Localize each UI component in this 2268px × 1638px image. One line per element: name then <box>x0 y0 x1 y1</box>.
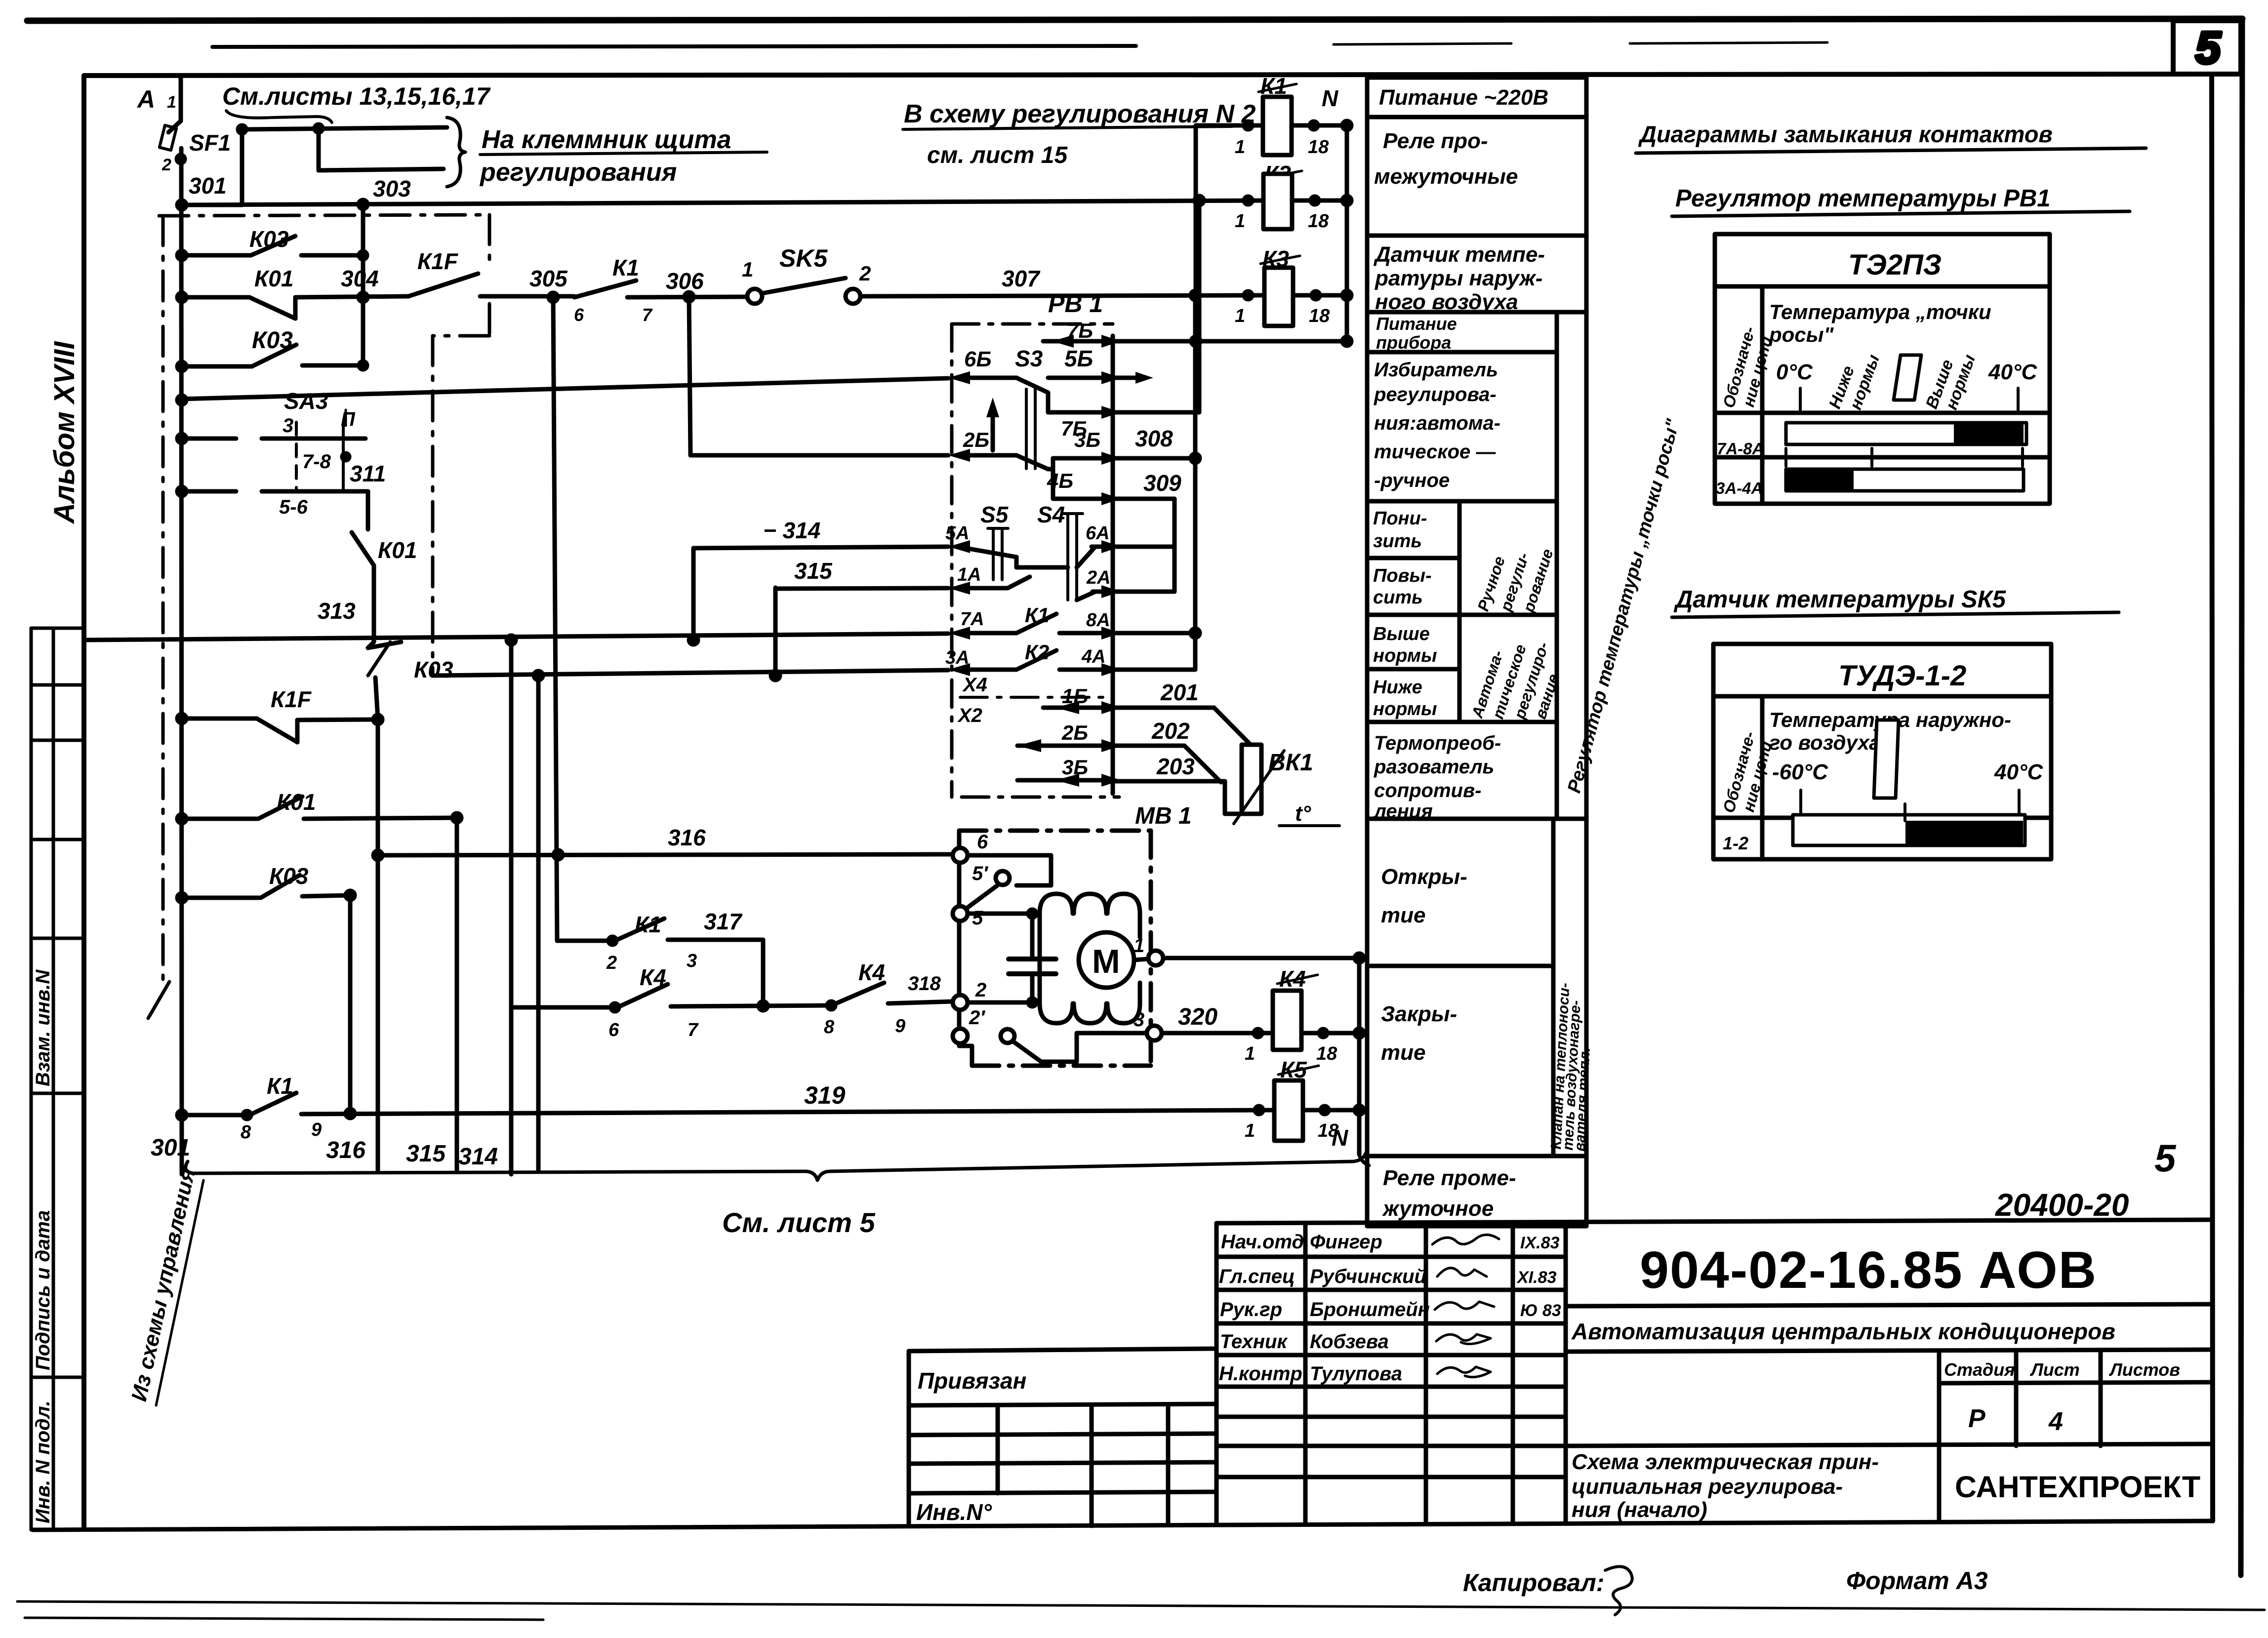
svg-text:202: 202 <box>1151 718 1190 744</box>
svg-text:18: 18 <box>1316 1043 1337 1064</box>
svg-text:18: 18 <box>1308 137 1329 158</box>
8A output joins loop <box>1113 631 1195 636</box>
svg-text:1: 1 <box>742 258 753 281</box>
svg-text:К4: К4 <box>640 964 666 990</box>
svg-text:зить: зить <box>1373 531 1422 552</box>
svg-text:Тулупова: Тулупова <box>1310 1363 1402 1385</box>
svg-text:308: 308 <box>1135 426 1173 451</box>
svg-text:Автоматизация центральных конд: Автоматизация центральных кондиционеров <box>1571 1318 2115 1344</box>
svg-text:-ручное: -ручное <box>1374 470 1450 491</box>
svg-text:2А: 2А <box>1086 567 1111 588</box>
svg-text:7Б: 7Б <box>1067 319 1093 342</box>
svg-text:8: 8 <box>241 1122 251 1143</box>
svg-text:18: 18 <box>1309 306 1330 326</box>
svg-text:315: 315 <box>406 1141 446 1167</box>
svg-text:301: 301 <box>151 1135 190 1161</box>
privyazan box <box>909 1349 1216 1526</box>
svg-text:2′: 2′ <box>969 1007 986 1029</box>
svg-text:1: 1 <box>1235 211 1245 232</box>
svg-text:жуточное: жуточное <box>1382 1197 1494 1221</box>
signature table <box>1303 1223 1308 1523</box>
leader diagonal <box>148 982 169 1018</box>
svg-text:3: 3 <box>283 415 293 437</box>
output 7B to relay K1 <box>1113 339 1347 344</box>
svg-text:К03: К03 <box>414 657 453 682</box>
outer box <box>1216 1220 2212 1223</box>
capacitor <box>1030 914 1035 959</box>
row 1B <box>1043 706 1113 710</box>
svg-text:Листов: Листов <box>2108 1359 2180 1380</box>
svg-text:203: 203 <box>1156 754 1195 779</box>
svg-text:Кобзева: Кобзева <box>1310 1331 1389 1353</box>
svg-text:9: 9 <box>311 1119 322 1140</box>
svg-text:ратуры наруж-: ратуры наруж- <box>1375 266 1542 290</box>
svg-text:Гл.спец: Гл.спец <box>1219 1266 1295 1287</box>
svg-text:Формат А3: Формат А3 <box>1846 1567 1988 1595</box>
svg-text:3Б: 3Б <box>1074 428 1100 451</box>
svg-text:307: 307 <box>1002 266 1041 291</box>
svg-text:нормы: нормы <box>1373 699 1437 719</box>
svg-text:N: N <box>1332 1125 1348 1151</box>
svg-text:40°С: 40°С <box>1994 760 2044 784</box>
svg-text:тическое —: тическое — <box>1374 441 1496 463</box>
svg-text:ВК1: ВК1 <box>1268 750 1313 776</box>
из схемы управления <box>127 1166 200 1403</box>
svg-text:311: 311 <box>350 461 386 486</box>
loop 308 bottom to 4A input <box>1113 668 1195 672</box>
svg-text:Рубчинский: Рубчинский <box>1310 1266 1426 1287</box>
contact K4 row <box>511 1005 615 1010</box>
svg-text:8: 8 <box>824 1017 835 1038</box>
svg-text:Взам. инв.N: Взам. инв.N <box>32 969 54 1086</box>
svg-text:тие: тие <box>1381 1040 1425 1065</box>
svg-text:0°С: 0°С <box>1776 360 1813 384</box>
terminal 1 and wire to right bus <box>1134 959 1154 960</box>
svg-text:Стадия: Стадия <box>1944 1359 2015 1380</box>
svg-text:Реле про-: Реле про- <box>1383 129 1488 153</box>
wire 301 to brace <box>182 203 242 207</box>
svg-text:Ю 83: Ю 83 <box>1520 1301 1561 1320</box>
svg-text:6: 6 <box>977 831 988 853</box>
svg-text:Закры-: Закры- <box>1381 1002 1457 1026</box>
wire 315 vertical <box>455 818 459 1171</box>
page right border <box>2241 19 2242 1575</box>
svg-text:Фингер: Фингер <box>1310 1231 1382 1253</box>
svg-text:ления: ления <box>1373 800 1433 822</box>
inner frame top <box>84 74 2212 76</box>
rotated sub-labels <box>1468 547 1562 721</box>
table TE2P3 <box>1715 234 2050 504</box>
table TUDE-1-2 <box>1713 644 2051 859</box>
svg-text:S4: S4 <box>1037 502 1065 527</box>
svg-text:1: 1 <box>1245 1043 1255 1064</box>
svg-text:2: 2 <box>606 953 617 973</box>
terminal 5 <box>953 906 968 921</box>
svg-text:5Б: 5Б <box>1064 346 1093 371</box>
svg-text:20400-20: 20400-20 <box>1995 1187 2129 1223</box>
svg-text:9: 9 <box>895 1016 905 1037</box>
svg-text:Датчик температуры SК5: Датчик температуры SК5 <box>1673 586 2006 613</box>
right part rows <box>1566 1304 2212 1306</box>
svg-text:7А-8А: 7А-8А <box>1717 439 1764 458</box>
svg-text:2Б: 2Б <box>1061 721 1088 744</box>
svg-text:N: N <box>1322 85 1338 111</box>
row 3B <box>1048 467 1053 472</box>
svg-text:Температура „точки: Температура „точки <box>1769 300 1991 323</box>
svg-text:6Б: 6Б <box>964 347 992 371</box>
row 2B input <box>948 449 970 462</box>
svg-text:3: 3 <box>1134 1009 1144 1031</box>
svg-text:315: 315 <box>794 558 833 584</box>
dash-dot enclosure <box>952 322 1113 326</box>
svg-text:регулирования: регулирования <box>479 158 677 187</box>
wire 6B rail <box>182 378 948 399</box>
svg-text:нормы: нормы <box>1373 645 1437 666</box>
svg-text:305: 305 <box>529 266 568 291</box>
svg-text:К1: К1 <box>635 912 661 937</box>
svg-text:7: 7 <box>688 1020 699 1040</box>
svg-text:Привязан: Привязан <box>918 1368 1026 1394</box>
svg-text:SF1: SF1 <box>189 130 231 156</box>
svg-text:Избиратель: Избиратель <box>1374 359 1498 381</box>
svg-text:Диаграммы замыкания контакто: Диаграммы замыкания контактов <box>1638 121 2053 147</box>
row 7A K1 8A <box>948 627 970 639</box>
breaker SF1 <box>179 78 183 121</box>
svg-text:S3: S3 <box>1015 346 1043 371</box>
svg-text:К01: К01 <box>254 266 293 291</box>
row 7B top <box>1043 339 1113 344</box>
svg-text:t°: t° <box>1295 801 1311 826</box>
svg-text:тие: тие <box>1381 903 1425 927</box>
svg-text:Х2: Х2 <box>957 705 982 726</box>
svg-text:Датчик темпе-: Датчик темпе- <box>1373 242 1545 267</box>
svg-text:Бронштейн: Бронштейн <box>1310 1299 1430 1320</box>
svg-text:316: 316 <box>668 825 706 850</box>
svg-text:Нач.отд.: Нач.отд. <box>1221 1231 1309 1253</box>
stage sheet <box>1944 1359 2180 1436</box>
svg-text:ния:автома-: ния:автома- <box>1374 412 1500 434</box>
svg-text:САНТЕХПРОЕКТ: САНТЕХПРОЕКТ <box>1955 1470 2200 1504</box>
svg-text:Рук.гр: Рук.гр <box>1220 1299 1282 1320</box>
svg-text:320: 320 <box>1178 1004 1217 1030</box>
svg-text:Инв. N подл.: Инв. N подл. <box>32 1400 54 1523</box>
svg-text:319: 319 <box>804 1081 846 1109</box>
svg-text:5: 5 <box>2154 1136 2177 1180</box>
svg-text:2: 2 <box>859 262 871 285</box>
svg-text:К1F: К1F <box>417 248 459 274</box>
svg-text:На клеммник щита: На клеммник щита <box>482 125 731 154</box>
svg-text:8А: 8А <box>1086 610 1110 631</box>
svg-text:6А: 6А <box>1086 523 1110 544</box>
svg-text:межуточные: межуточные <box>1374 164 1518 189</box>
svg-text:IХ.83: IХ.83 <box>1520 1234 1559 1252</box>
svg-text:Термопреоб-: Термопреоб- <box>1374 732 1501 754</box>
svg-text:5А: 5А <box>945 523 970 544</box>
contact K4 second <box>827 1001 835 1009</box>
svg-text:2: 2 <box>975 979 986 1001</box>
svg-text:Питание: Питание <box>1376 314 1457 334</box>
svg-text:1: 1 <box>167 93 176 112</box>
inner frame bottom <box>33 1521 2213 1530</box>
svg-text:Регулятор температуры РВ1: Регулятор температуры РВ1 <box>1675 185 2051 212</box>
vertical 306 to PB1 2B input <box>689 297 690 455</box>
svg-text:7: 7 <box>642 305 653 325</box>
inner frame right <box>2212 74 2213 1521</box>
vertical from 305 to K1 row <box>553 297 557 941</box>
inner frame left <box>81 76 86 1529</box>
svg-text:Подпись и дата: Подпись и дата <box>32 1210 54 1370</box>
svg-text:SА3: SА3 <box>284 388 328 414</box>
motor M <box>1079 932 1134 988</box>
svg-text:ного воздуха: ного воздуха <box>1375 290 1518 314</box>
wire 7A rail <box>85 634 948 640</box>
row 4B <box>1053 497 1113 501</box>
svg-text:ХI.83: ХI.83 <box>1516 1268 1556 1287</box>
svg-text:309: 309 <box>1143 470 1181 496</box>
connector column X1 <box>1111 336 1115 794</box>
svg-text:7-8: 7-8 <box>302 451 331 473</box>
svg-text:Техник: Техник <box>1220 1331 1288 1353</box>
svg-text:304: 304 <box>341 266 379 291</box>
svg-text:Н.контр: Н.контр <box>1219 1363 1302 1385</box>
sheet 5 bracket <box>186 1153 1366 1180</box>
svg-text:К01: К01 <box>378 537 417 563</box>
svg-text:Ниже: Ниже <box>1373 677 1422 698</box>
output stub <box>1113 376 1146 380</box>
svg-text:Альбом XVIII: Альбом XVIII <box>48 341 81 524</box>
svg-text:40°С: 40°С <box>1988 360 2038 384</box>
svg-text:1: 1 <box>1245 1120 1255 1141</box>
svg-text:1-2: 1-2 <box>1723 833 1748 853</box>
svg-text:18: 18 <box>1308 211 1329 232</box>
signature table texts <box>1219 1231 1561 1385</box>
svg-text:904-02-16.85 АОВ: 904-02-16.85 АОВ <box>1640 1241 2097 1299</box>
svg-text:РВ 1: РВ 1 <box>1048 290 1103 318</box>
wire down to bracket <box>536 676 541 1171</box>
svg-text:Питание ~220В: Питание ~220В <box>1379 85 1548 110</box>
svg-text:316: 316 <box>326 1137 365 1163</box>
svg-text:1: 1 <box>1235 137 1245 158</box>
svg-text:201: 201 <box>1160 679 1199 705</box>
svg-text:1Б: 1Б <box>1062 684 1088 708</box>
left strip rotated labels <box>32 969 54 1523</box>
row 3A K2 4A <box>948 663 970 676</box>
svg-text:2: 2 <box>162 156 171 174</box>
svg-text:Повы-: Повы- <box>1373 565 1432 586</box>
svg-text:росы": росы" <box>1769 323 1834 346</box>
svg-text:1: 1 <box>1134 935 1144 957</box>
svg-text:Капировал:: Капировал: <box>1463 1569 1604 1597</box>
switch S4 <box>1066 514 1069 600</box>
svg-text:5′: 5′ <box>972 863 989 884</box>
svg-text:ния (начало): ния (начало) <box>1572 1498 1707 1522</box>
brace to terminal strip <box>447 118 465 187</box>
svg-text:313: 313 <box>318 598 356 624</box>
svg-text:3: 3 <box>687 951 697 971</box>
terminal 2 <box>953 995 968 1010</box>
svg-text:S5: S5 <box>980 502 1009 527</box>
svg-text:SK5: SK5 <box>779 244 828 272</box>
svg-text:314: 314 <box>458 1144 498 1170</box>
sheet number box top right <box>2173 21 2241 74</box>
svg-text:ТЭ2ПЗ: ТЭ2ПЗ <box>1848 249 1942 281</box>
svg-text:1: 1 <box>1235 306 1245 326</box>
svg-text:301: 301 <box>189 173 227 199</box>
svg-text:го воздуха: го воздуха <box>1769 731 1881 754</box>
svg-text:306: 306 <box>666 268 704 294</box>
svg-text:К4: К4 <box>858 959 885 985</box>
svg-text:5: 5 <box>972 907 983 929</box>
sensor SK5 heading <box>1672 586 2119 617</box>
svg-text:ТУДЭ-1-2: ТУДЭ-1-2 <box>1838 660 1966 692</box>
svg-text:МВ 1: МВ 1 <box>1135 803 1192 829</box>
terminal 3 and wire 320 <box>1077 1031 1151 1036</box>
switch SK5 <box>747 289 762 304</box>
output 5B to relay K2 <box>1113 410 1199 415</box>
svg-text:К1: К1 <box>1025 603 1049 627</box>
wire 315 line to PB1 <box>775 588 948 589</box>
svg-text:Лист: Лист <box>2029 1359 2080 1380</box>
row 3B bottom <box>1017 778 1113 783</box>
svg-text:7А: 7А <box>960 609 984 630</box>
svg-text:Схема электрическая прин-: Схема электрическая прин- <box>1572 1450 1879 1474</box>
signatures squiggles <box>1432 1235 1499 1377</box>
terminal 2' switch <box>953 1029 968 1043</box>
row 1A 2A <box>948 582 970 595</box>
svg-text:Реле проме-: Реле проме- <box>1383 1166 1516 1190</box>
svg-text:ципиальная регулирова-: ципиальная регулирова- <box>1572 1475 1843 1499</box>
svg-text:3А: 3А <box>945 647 970 668</box>
svg-text:Пони-: Пони- <box>1373 508 1427 529</box>
page top border <box>27 19 2242 21</box>
svg-text:4Б: 4Б <box>1047 469 1073 492</box>
svg-text:6: 6 <box>574 305 584 325</box>
svg-text:прибора: прибора <box>1376 332 1451 353</box>
motor stator windings <box>1040 894 1140 914</box>
svg-text:5: 5 <box>2195 23 2222 73</box>
limit switch 5' <box>996 871 1010 885</box>
wire 314 line to PB1 <box>693 547 948 548</box>
svg-text:317: 317 <box>704 909 743 934</box>
svg-text:-60°С: -60°С <box>1772 760 1828 784</box>
svg-text:К1F: К1F <box>271 686 312 712</box>
terminal 6 <box>953 848 968 863</box>
row 6B S3 5B <box>948 371 970 384</box>
scheme name <box>1572 1450 1879 1522</box>
row 2B bottom <box>1017 744 1113 748</box>
svg-text:См.листы 13,15,16,17: См.листы 13,15,16,17 <box>222 82 491 110</box>
thermistor BK1 <box>1242 745 1261 814</box>
svg-text:3А-4А: 3А-4А <box>1716 479 1763 497</box>
dash-dot box <box>959 829 1151 833</box>
svg-text:К03: К03 <box>269 863 309 889</box>
svg-text:Инв.N°: Инв.N° <box>916 1499 992 1525</box>
svg-text:Х4: Х4 <box>962 674 987 696</box>
svg-text:6: 6 <box>608 1020 619 1040</box>
svg-text:разователь: разователь <box>1374 756 1494 778</box>
wire 3A rail <box>433 670 948 676</box>
paper bottom edge <box>17 1601 2265 1610</box>
svg-text:К1: К1 <box>612 255 639 280</box>
svg-text:А: А <box>136 85 155 113</box>
svg-text:см. лист 15: см. лист 15 <box>927 142 1068 168</box>
svg-text:Выше: Выше <box>1373 624 1430 644</box>
svg-text:2Б: 2Б <box>963 428 989 451</box>
svg-text:4А: 4А <box>1081 646 1106 667</box>
svg-text:К2: К2 <box>1025 640 1049 664</box>
svg-text:5-6: 5-6 <box>279 496 308 518</box>
svg-text:Р: Р <box>1968 1404 1985 1433</box>
svg-text:3Б: 3Б <box>1062 756 1088 779</box>
svg-text:См. лист 5: См. лист 5 <box>722 1207 876 1238</box>
svg-text:303: 303 <box>373 176 411 201</box>
svg-text:Откры-: Откры- <box>1381 865 1467 889</box>
svg-text:4: 4 <box>2048 1407 2063 1436</box>
contact K1 with wire 317 <box>557 939 612 943</box>
svg-text:− 314: − 314 <box>763 518 820 543</box>
svg-text:сить: сить <box>1373 587 1423 608</box>
svg-text:регулирова-: регулирова- <box>1374 384 1497 405</box>
svg-text:М: М <box>1092 943 1120 980</box>
wire 314 vertical <box>509 640 514 1174</box>
svg-text:сопротив-: сопротив- <box>1374 780 1481 801</box>
svg-text:1А: 1А <box>957 564 981 585</box>
svg-text:318: 318 <box>908 973 941 995</box>
row 7B second <box>1046 393 1051 412</box>
